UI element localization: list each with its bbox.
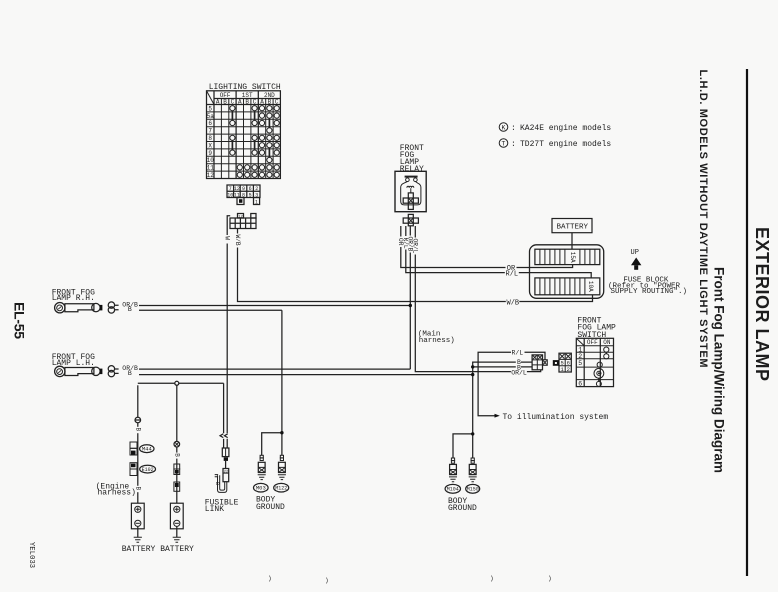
svg-text:B: B	[173, 453, 180, 457]
svg-text:RELAY: RELAY	[400, 165, 424, 174]
svg-text:KA24E engine models: KA24E engine models	[520, 124, 611, 133]
svg-text:M150: M150	[467, 487, 479, 493]
svg-text:B: B	[128, 370, 132, 377]
svg-text:M44: M44	[142, 446, 153, 453]
svg-text:7: 7	[208, 128, 212, 135]
svg-text:W/B: W/B	[507, 299, 520, 307]
svg-text:8: 8	[242, 192, 245, 198]
svg-text:10: 10	[207, 157, 215, 164]
svg-text:GROUND: GROUND	[448, 504, 477, 513]
svg-text:To illumination system: To illumination system	[503, 413, 609, 422]
svg-text:B: B	[268, 98, 272, 105]
svg-text:UP: UP	[631, 249, 639, 257]
svg-text:OFF: OFF	[587, 339, 598, 346]
svg-text:M104: M104	[447, 487, 459, 493]
svg-text:9: 9	[208, 150, 212, 157]
svg-text:EXTERIOR LAMP: EXTERIOR LAMP	[752, 227, 772, 381]
svg-text:C: C	[231, 98, 235, 105]
svg-text:12: 12	[238, 215, 243, 219]
svg-text:K: K	[502, 124, 506, 131]
svg-text:5a: 5a	[207, 113, 215, 120]
svg-text:BATTERY: BATTERY	[557, 224, 589, 232]
svg-text:B: B	[128, 306, 132, 313]
svg-text:22: 22	[224, 471, 229, 475]
svg-text:B: B	[223, 98, 227, 105]
svg-text:11: 11	[234, 192, 240, 198]
svg-text:10: 10	[227, 192, 233, 198]
svg-text:B: B	[214, 482, 220, 485]
svg-text:C: C	[275, 98, 279, 105]
svg-text:6: 6	[249, 186, 252, 192]
svg-text:A: A	[216, 98, 220, 105]
svg-text:A: A	[260, 98, 264, 105]
svg-text:B: B	[245, 98, 249, 105]
svg-text:GROUND: GROUND	[256, 503, 285, 512]
svg-text:OR/L: OR/L	[511, 369, 527, 376]
svg-text:5: 5	[249, 192, 252, 198]
svg-text:1: 1	[255, 199, 258, 205]
svg-text:6: 6	[578, 380, 582, 387]
svg-text:TD27T engine models: TD27T engine models	[520, 140, 611, 149]
svg-text:harness): harness)	[98, 489, 136, 498]
svg-text:2: 2	[578, 353, 582, 360]
svg-text:12: 12	[234, 186, 240, 192]
svg-text:9: 9	[242, 186, 245, 192]
svg-text:12: 12	[207, 172, 215, 179]
svg-text:X: X	[208, 142, 212, 149]
svg-text:SUPPLY ROUTING".): SUPPLY ROUTING".)	[611, 288, 688, 296]
svg-text::: :	[511, 124, 516, 133]
svg-text:W: W	[224, 236, 231, 240]
svg-text:11: 11	[207, 165, 215, 172]
svg-text:LINK: LINK	[205, 505, 224, 514]
svg-text:A: A	[238, 98, 242, 105]
svg-text:LAMP R.H.: LAMP R.H.	[52, 294, 95, 303]
svg-text:E102: E102	[142, 467, 154, 473]
svg-text:): )	[268, 575, 272, 582]
svg-text:harness): harness)	[419, 337, 455, 345]
svg-text:5: 5	[578, 360, 582, 367]
svg-text:OR/L: OR/L	[412, 239, 419, 254]
svg-text:M03: M03	[256, 485, 266, 492]
svg-text:W/B: W/B	[234, 235, 241, 246]
svg-text:6: 6	[208, 120, 212, 127]
svg-text:15A: 15A	[569, 252, 576, 263]
svg-text:7: 7	[229, 186, 232, 192]
svg-text::: :	[511, 140, 516, 149]
svg-text:B: B	[134, 428, 141, 432]
svg-text:M122: M122	[275, 486, 287, 492]
svg-text:EL-55: EL-55	[12, 302, 28, 339]
svg-text:C: C	[253, 98, 257, 105]
svg-text:ON: ON	[603, 339, 611, 346]
svg-text:): )	[325, 577, 329, 584]
svg-text:L.H.D. MODELS WITHOUT DAYTIME: L.H.D. MODELS WITHOUT DAYTIME LIGHT SYST…	[697, 70, 709, 368]
svg-text:YEL033: YEL033	[27, 542, 35, 568]
svg-text:3: 3	[255, 192, 258, 198]
svg-text:): )	[548, 575, 552, 582]
svg-text:Front Fog Lamp/Wiring Diagram: Front Fog Lamp/Wiring Diagram	[712, 267, 727, 473]
svg-text:BATTERY: BATTERY	[160, 545, 194, 554]
svg-text:R/L: R/L	[512, 350, 524, 357]
svg-text:8: 8	[208, 135, 212, 142]
svg-text:): )	[490, 575, 494, 582]
svg-text:2: 2	[255, 186, 258, 192]
svg-text:10A: 10A	[587, 281, 594, 292]
svg-text:5: 5	[208, 105, 212, 112]
svg-text:R/L: R/L	[506, 270, 519, 278]
svg-text:BATTERY: BATTERY	[122, 545, 156, 554]
svg-text:2: 2	[567, 366, 570, 373]
svg-text:T: T	[502, 140, 506, 147]
